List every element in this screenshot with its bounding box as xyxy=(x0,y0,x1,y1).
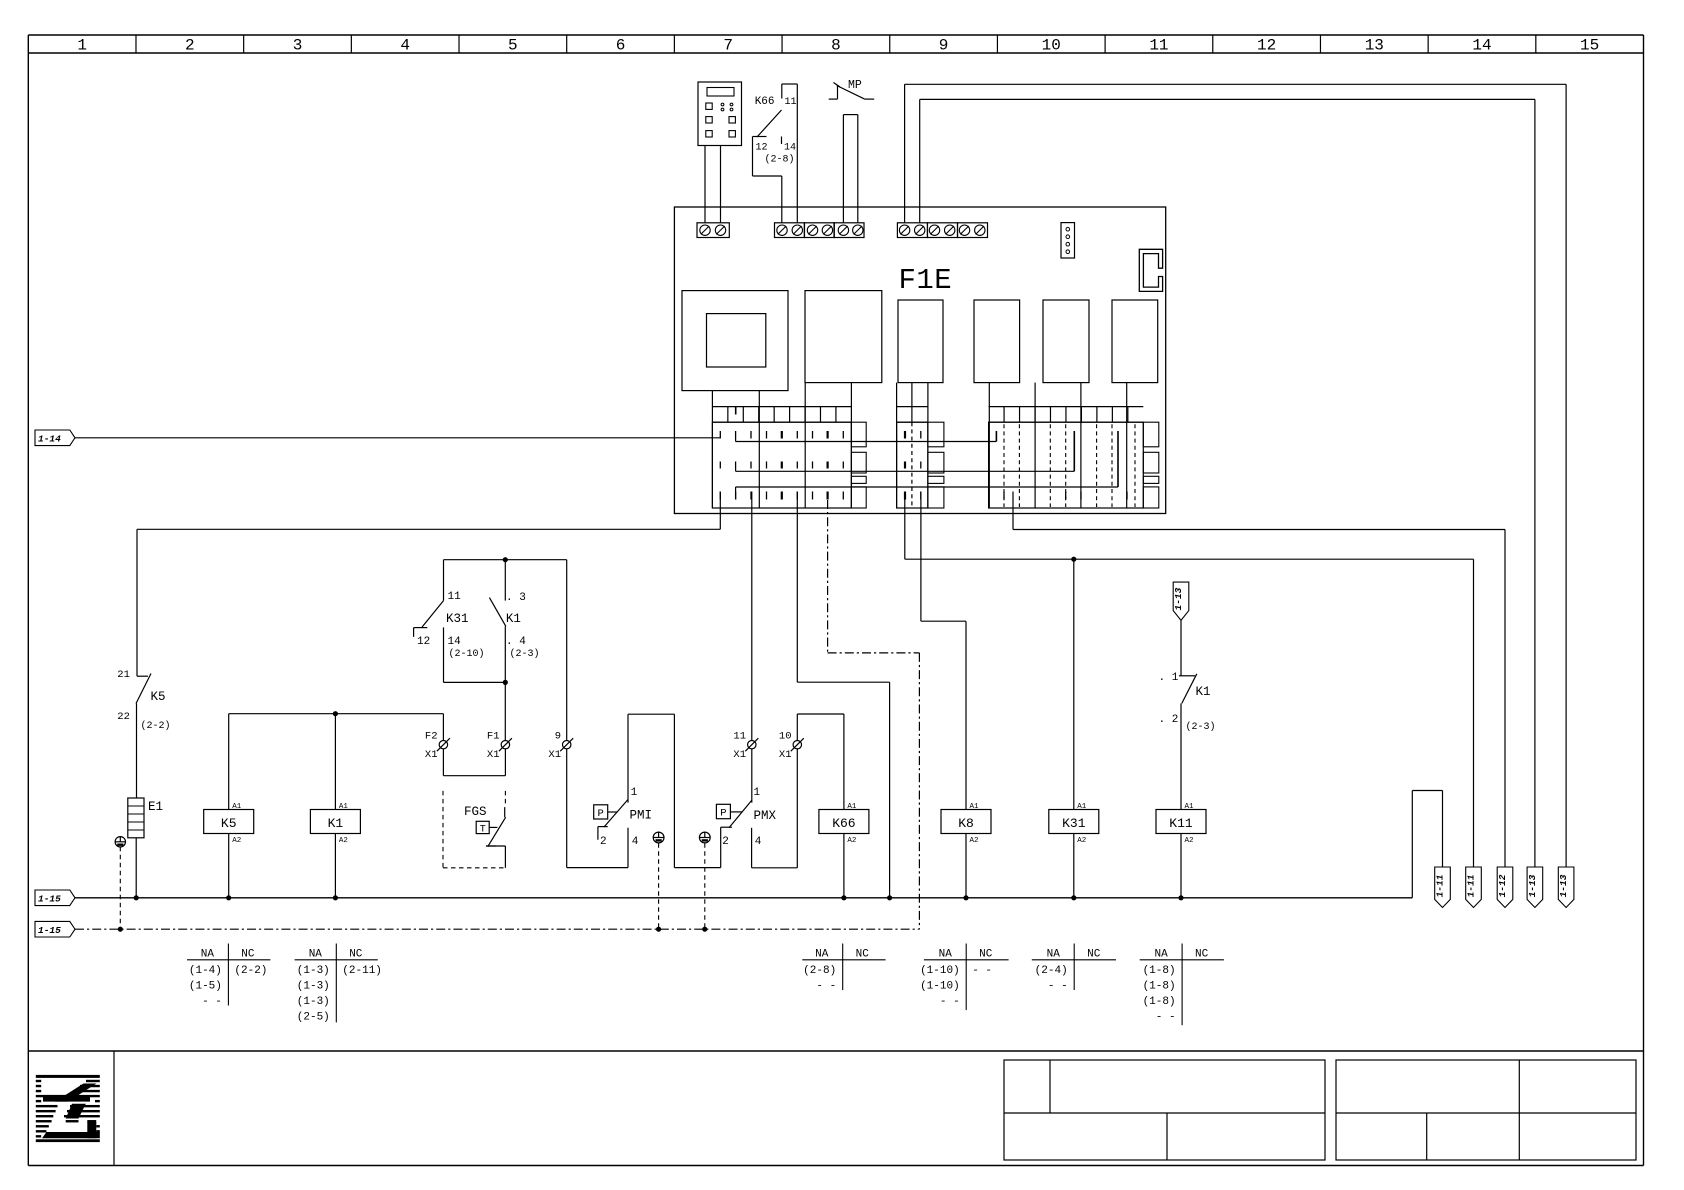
svg-text:X1: X1 xyxy=(779,749,792,761)
svg-text:8: 8 xyxy=(831,37,841,55)
wire CN1 to K5 branch xyxy=(719,492,721,530)
junction xyxy=(134,895,139,900)
svg-text:- -: - - xyxy=(816,981,836,993)
relay coil K11 xyxy=(1156,810,1206,834)
heater element E1 xyxy=(128,798,144,838)
junction xyxy=(503,680,508,685)
link below F2/F1 xyxy=(442,749,444,776)
wire CN2 to K8 coil xyxy=(920,492,922,622)
wire CN2 to flag 1-11 (supply line) xyxy=(904,492,906,560)
terminal strip (right, 3 blocks) xyxy=(897,223,927,238)
svg-text:NC: NC xyxy=(1195,949,1209,961)
svg-text:10: 10 xyxy=(1042,37,1061,55)
relay coil K1 xyxy=(310,810,360,834)
svg-text:15: 15 xyxy=(1580,37,1599,55)
svg-text:12: 12 xyxy=(756,143,768,154)
svg-text:22: 22 xyxy=(117,711,130,723)
flag 1-11 xyxy=(1466,867,1482,908)
svg-text:12: 12 xyxy=(417,636,430,648)
junction xyxy=(1071,557,1076,562)
CN1 right tabs xyxy=(851,422,866,447)
connector group CN3 (right) xyxy=(988,383,990,508)
rail to flag 1-11 xyxy=(1411,791,1413,898)
protective earth rail (dash-dot, net 1-15) xyxy=(75,928,919,930)
svg-text:NA: NA xyxy=(1047,949,1061,961)
svg-text:1-15: 1-15 xyxy=(38,925,61,936)
title block logo cell xyxy=(113,1051,115,1166)
svg-text:NA: NA xyxy=(815,949,829,961)
svg-text:A1: A1 xyxy=(1077,803,1087,811)
svg-text:(2-8): (2-8) xyxy=(765,154,795,166)
cross-ref table K31 xyxy=(1073,944,1075,991)
svg-text:(2-3): (2-3) xyxy=(1186,721,1216,733)
svg-text:FGS: FGS xyxy=(464,805,487,819)
svg-text:(2-3): (2-3) xyxy=(510,648,540,660)
svg-text:14: 14 xyxy=(448,636,462,648)
svg-text:NC: NC xyxy=(979,949,993,961)
svg-text:NC: NC xyxy=(349,949,363,961)
svg-text:(1-5): (1-5) xyxy=(189,981,222,993)
svg-text:A2: A2 xyxy=(847,837,856,845)
svg-text:2: 2 xyxy=(722,836,729,848)
earth symbol at PMI xyxy=(653,832,664,843)
bus line C (CN1 to CN3) xyxy=(736,486,1118,488)
svg-text:- -: - - xyxy=(202,996,222,1008)
contact K5 (21-22 break contact) xyxy=(137,675,148,677)
junction xyxy=(1071,895,1076,900)
relay coil K66 xyxy=(819,810,869,834)
svg-text:4: 4 xyxy=(632,836,639,848)
svg-text:X1: X1 xyxy=(425,749,438,761)
svg-text:. 1: . 1 xyxy=(1159,672,1179,684)
page border frame xyxy=(28,34,1643,36)
wire CN1 to neutral rail xyxy=(796,492,798,683)
earth symbol at E1 xyxy=(115,837,125,847)
title block left box xyxy=(1004,1060,1325,1160)
svg-text:11: 11 xyxy=(733,731,746,743)
svg-text:11: 11 xyxy=(448,591,462,603)
svg-text:11: 11 xyxy=(785,97,797,108)
svg-text:. 3: . 3 xyxy=(506,592,526,604)
junction xyxy=(887,895,892,900)
svg-text:- -: - - xyxy=(1156,1011,1176,1023)
wire K8-A2 to rail xyxy=(965,834,967,898)
svg-text:(2-8): (2-8) xyxy=(803,965,836,977)
title block right box xyxy=(1336,1060,1636,1160)
cross-ref table K66 xyxy=(842,944,844,991)
svg-text:K1: K1 xyxy=(1196,685,1211,699)
svg-text:. 4: . 4 xyxy=(506,636,526,648)
CN3 right tabs xyxy=(1143,422,1159,447)
svg-text:K8: K8 xyxy=(958,816,974,831)
wire E1 to rail xyxy=(135,838,137,898)
svg-text:K31: K31 xyxy=(446,612,469,626)
earth symbol at PMX xyxy=(699,832,710,843)
svg-text:NC: NC xyxy=(1087,949,1101,961)
svg-text:F1: F1 xyxy=(487,731,500,743)
svg-text:K66: K66 xyxy=(755,96,775,108)
svg-text:A1: A1 xyxy=(339,803,349,811)
svg-text:A2: A2 xyxy=(339,837,348,845)
junction xyxy=(333,895,338,900)
svg-text:K11: K11 xyxy=(1169,816,1193,831)
svg-text:21: 21 xyxy=(117,669,130,681)
terminal strip X (left, 2 screws) xyxy=(697,223,729,238)
svg-text:K1: K1 xyxy=(328,816,344,831)
svg-text:X1: X1 xyxy=(548,749,561,761)
wire K66 pin12 to board xyxy=(752,137,754,177)
svg-text:A1: A1 xyxy=(232,803,242,811)
connector group CN1 (left) xyxy=(711,391,713,508)
svg-text:(1-10): (1-10) xyxy=(920,981,960,993)
wire K11-A2 to rail xyxy=(1180,834,1182,898)
board component box U2 xyxy=(805,291,882,383)
svg-text:. 2: . 2 xyxy=(1159,714,1179,726)
svg-text:1-14: 1-14 xyxy=(38,433,61,444)
svg-text:10: 10 xyxy=(779,731,792,743)
svg-text:MP: MP xyxy=(848,79,862,92)
FGS thermal cut-out (dashed enclosure) xyxy=(442,791,444,868)
svg-text:(1-8): (1-8) xyxy=(1143,965,1176,977)
svg-text:A2: A2 xyxy=(1077,837,1086,845)
svg-text:3: 3 xyxy=(293,37,303,55)
svg-text:F2: F2 xyxy=(425,731,438,743)
svg-text:2: 2 xyxy=(600,836,607,848)
flag 1-13 (feed to K1/K11) xyxy=(1173,582,1189,620)
company logo (striped Z) xyxy=(36,1075,100,1078)
neutral rail (net 1-15) xyxy=(75,897,1412,899)
X1 terminal 11 xyxy=(748,741,756,749)
wire terminal 10 to K66 coil xyxy=(796,714,798,741)
svg-text:(1-10): (1-10) xyxy=(920,965,960,977)
wire CN3 to flag 1-12 xyxy=(1012,492,1014,530)
X1 terminal F1 xyxy=(501,741,509,749)
wire MAINS-A (to flag 1-13 right) xyxy=(904,84,906,223)
svg-text:F1E: F1E xyxy=(899,264,953,297)
svg-text:(2-2): (2-2) xyxy=(141,720,171,732)
svg-text:1: 1 xyxy=(631,787,638,799)
svg-text:NA: NA xyxy=(939,949,953,961)
svg-text:E1: E1 xyxy=(148,800,163,814)
junction xyxy=(118,927,123,932)
svg-text:2: 2 xyxy=(185,37,195,55)
wire to terminal F1 xyxy=(504,682,506,740)
connector group CN2 (middle) xyxy=(896,383,898,508)
wire K66-A2 to rail xyxy=(843,834,845,898)
svg-text:1-12: 1-12 xyxy=(1497,874,1508,897)
svg-text:(2-10): (2-10) xyxy=(449,648,485,660)
4-pin header connector xyxy=(1061,223,1075,258)
feed line to K5/K1 coils xyxy=(229,713,444,715)
board component box U4 xyxy=(974,300,1020,383)
CN1 pins xyxy=(719,431,721,439)
svg-text:(2-4): (2-4) xyxy=(1035,965,1068,977)
svg-text:(1-4): (1-4) xyxy=(189,965,222,977)
junction xyxy=(702,927,707,932)
svg-text:K5: K5 xyxy=(151,690,166,704)
junction xyxy=(656,927,661,932)
svg-text:PMX: PMX xyxy=(754,809,777,823)
pressure switch PMX xyxy=(751,749,753,803)
svg-text:- -: - - xyxy=(972,965,992,977)
wire K1-A2 to rail xyxy=(334,834,336,898)
svg-text:A1: A1 xyxy=(970,803,980,811)
wire MAINS-B (to flag 1-13 right) xyxy=(919,99,921,222)
svg-text:1-13: 1-13 xyxy=(1527,874,1538,897)
contact K66 (11-12-14) xyxy=(782,83,798,85)
svg-text:1: 1 xyxy=(77,37,87,55)
svg-text:PMI: PMI xyxy=(630,809,653,823)
junction xyxy=(226,895,231,900)
svg-text:14: 14 xyxy=(1472,37,1491,55)
svg-text:(1-3): (1-3) xyxy=(297,965,330,977)
svg-text:1-13: 1-13 xyxy=(1558,874,1569,897)
terminal strip (center, 3 blocks) xyxy=(775,223,805,238)
svg-text:4: 4 xyxy=(755,836,762,848)
svg-text:1-13: 1-13 xyxy=(1173,587,1184,610)
bus line B (CN1 to CN3) xyxy=(736,470,1075,472)
relay coil K8 xyxy=(941,810,991,834)
svg-text:P: P xyxy=(720,808,726,820)
wire K31-A2 to rail xyxy=(1073,834,1075,898)
flag 1-13 xyxy=(1558,867,1574,908)
svg-text:(1-8): (1-8) xyxy=(1143,981,1176,993)
svg-text:A2: A2 xyxy=(1185,837,1194,845)
svg-text:- -: - - xyxy=(1048,981,1068,993)
bus line A (CN1 to CN3) xyxy=(736,441,997,443)
svg-text:(2-5): (2-5) xyxy=(297,1011,330,1023)
svg-text:4: 4 xyxy=(400,37,410,55)
relay coil K31 xyxy=(1049,810,1099,834)
display/keypad unit xyxy=(698,82,742,146)
svg-text:1: 1 xyxy=(754,787,761,799)
cross-ref table K11 xyxy=(1181,944,1183,1026)
svg-text:12: 12 xyxy=(1257,37,1276,55)
svg-text:(1-8): (1-8) xyxy=(1143,996,1176,1008)
svg-text:14: 14 xyxy=(784,143,796,154)
wire K5-A2 to rail xyxy=(228,834,230,898)
svg-text:13: 13 xyxy=(1365,37,1384,55)
board component box U1 (with inner die) xyxy=(682,291,788,391)
svg-text:A2: A2 xyxy=(232,837,241,845)
control board F1E outline xyxy=(674,207,1165,514)
svg-text:NC: NC xyxy=(241,949,255,961)
protective earth trace (dash-dot) from CN1 xyxy=(827,500,829,653)
relay coil K5 xyxy=(204,810,254,834)
junction xyxy=(503,557,508,562)
svg-text:K1: K1 xyxy=(506,612,521,626)
pressure switch PMI xyxy=(566,749,568,868)
svg-text:X1: X1 xyxy=(487,749,500,761)
thermal element T xyxy=(476,821,489,833)
CN2 right tabs xyxy=(928,422,944,447)
cross-ref table K1 xyxy=(335,944,337,1023)
contact group K31/K1 top bar xyxy=(444,559,567,561)
cross-ref table K8 xyxy=(965,944,967,1011)
wire terminal 9 feed xyxy=(566,560,568,741)
svg-text:(1-3): (1-3) xyxy=(297,981,330,993)
svg-text:NA: NA xyxy=(1154,949,1168,961)
svg-text:9: 9 xyxy=(555,731,561,743)
wire display to terminal xyxy=(704,146,706,223)
PMI pressure element P xyxy=(594,805,608,819)
X1 terminal F2 xyxy=(439,741,447,749)
wire K5 coil feed xyxy=(228,714,230,810)
svg-text:X1: X1 xyxy=(733,749,746,761)
contact K1 (3-4) xyxy=(504,560,506,601)
board component box U5 xyxy=(1043,300,1089,383)
board component box U6 xyxy=(1112,300,1158,383)
svg-text:A1: A1 xyxy=(1185,803,1195,811)
svg-text:A1: A1 xyxy=(847,803,857,811)
wire CN1 to PMX terminal 11 xyxy=(751,492,753,741)
wire net 1-14 from flag to CN1 xyxy=(75,437,720,439)
svg-text:K66: K66 xyxy=(832,816,855,831)
junction xyxy=(333,711,338,716)
svg-text:NC: NC xyxy=(856,949,870,961)
PMX pressure element P xyxy=(716,804,730,818)
svg-text:9: 9 xyxy=(939,37,949,55)
flag 1-12 xyxy=(1497,867,1513,908)
svg-text:11: 11 xyxy=(1149,37,1168,55)
flag 1-11 xyxy=(1435,867,1451,908)
mounting bracket (C-shape) xyxy=(1139,249,1162,291)
X1 terminal 9 xyxy=(563,741,571,749)
svg-text:7: 7 xyxy=(723,37,733,55)
svg-text:6: 6 xyxy=(616,37,626,55)
wire K1 coil feed xyxy=(334,714,336,810)
svg-text:(2-2): (2-2) xyxy=(234,965,267,977)
PE wire from E1 earth (dashed) xyxy=(119,847,121,929)
svg-text:K31: K31 xyxy=(1062,816,1086,831)
wire flag to K1 contact xyxy=(1180,620,1182,675)
wire K31 coil feed xyxy=(1073,559,1075,809)
X1 terminal 10 xyxy=(793,741,801,749)
svg-text:1-11: 1-11 xyxy=(1435,875,1446,898)
bottom bar K31/K1 xyxy=(444,681,506,683)
svg-text:A2: A2 xyxy=(970,837,979,845)
svg-text:1-15: 1-15 xyxy=(38,893,61,904)
svg-text:T: T xyxy=(480,825,486,836)
svg-text:P: P xyxy=(598,808,604,820)
svg-text:- -: - - xyxy=(940,996,960,1008)
board component box U3 xyxy=(898,300,943,383)
MP jumper to terminals xyxy=(843,114,857,116)
contact K1 (1-2 make contact) xyxy=(1179,675,1195,677)
junction xyxy=(963,895,968,900)
junction xyxy=(1178,895,1183,900)
svg-text:NA: NA xyxy=(201,949,215,961)
contact K31 (11-14) xyxy=(443,560,445,601)
flag 1-13 xyxy=(1527,867,1543,908)
svg-text:5: 5 xyxy=(508,37,518,55)
thermal protector MP symbol xyxy=(829,98,838,100)
cross-ref table K5 xyxy=(227,944,229,1006)
svg-text:1-11: 1-11 xyxy=(1466,875,1477,898)
svg-text:(1-3): (1-3) xyxy=(297,996,330,1008)
junction xyxy=(841,895,846,900)
svg-text:NA: NA xyxy=(309,949,323,961)
svg-text:K5: K5 xyxy=(221,816,237,831)
svg-text:(2-11): (2-11) xyxy=(342,965,382,977)
